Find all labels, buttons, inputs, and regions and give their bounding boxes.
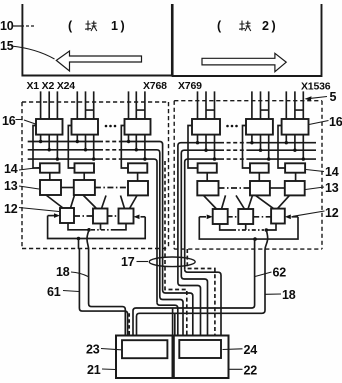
14 box R3 [285, 163, 305, 172]
dashed stair A [187, 249, 215, 336]
pointer 18 left [71, 272, 88, 277]
svg-text:12: 12 [325, 206, 339, 220]
block1 text [68, 19, 125, 33]
svg-text:): ) [272, 19, 276, 33]
svg-text:62: 62 [273, 266, 287, 280]
16 box R2 [246, 119, 273, 135]
12 box L3 [119, 209, 134, 224]
svg-text:18: 18 [282, 288, 296, 302]
13 box L3 [128, 181, 148, 195]
label 18 right [282, 288, 296, 302]
14 box L3 [128, 163, 147, 172]
label 23 [86, 343, 100, 357]
62 wire down [254, 239, 256, 249]
svg-text:1: 1 [111, 19, 118, 33]
label 12 right [325, 206, 339, 220]
label 21 [87, 363, 101, 377]
svg-text:13: 13 [325, 181, 339, 195]
staircase R3 [185, 269, 221, 335]
12R3 output [266, 224, 276, 231]
18r wire [137, 249, 266, 336]
label 15 [0, 39, 14, 53]
14 box R1 [198, 163, 217, 172]
input wires group R1 [198, 91, 215, 119]
dashed box left [22, 102, 169, 249]
dashed stair B [165, 161, 187, 336]
input wires group L1 [41, 91, 58, 119]
label 16 right [329, 115, 342, 129]
staircase L3 [163, 290, 193, 336]
13 box R2 [250, 181, 270, 195]
13 box R1 [197, 181, 218, 195]
pointer 22 [229, 368, 243, 370]
block2 text [217, 19, 276, 33]
feedback loop left [48, 216, 146, 239]
bus R3 [185, 159, 316, 269]
svg-text:X769: X769 [178, 80, 202, 92]
18r S-curve down [265, 230, 268, 249]
glyph kuai block2 [239, 21, 251, 32]
bus L2 [28, 150, 160, 297]
input wires group R2 [252, 91, 269, 119]
feedback loop right [199, 217, 298, 239]
label 17 [121, 255, 135, 269]
dot at 18r tap [265, 228, 269, 232]
staircase R2 [181, 276, 207, 336]
input wires group L2 [77, 91, 93, 119]
pointer 14 right [306, 170, 324, 172]
16 box output wires L1 [41, 135, 58, 160]
link 14-13 R1 [206, 173, 208, 181]
16 box output wires L2 [77, 135, 93, 160]
staircase R1 [178, 283, 201, 336]
arrow right (block2) [202, 53, 286, 71]
16 box R1 [192, 119, 220, 135]
diagonals 13 to 12 right [204, 195, 290, 209]
svg-text:21: 21 [87, 363, 101, 377]
arrow into 12R1 [199, 216, 206, 218]
svg-text:23: 23 [86, 343, 100, 357]
box 21 [116, 336, 173, 379]
label 13 left [4, 179, 18, 193]
dot 18l tap [87, 228, 91, 232]
16 box L2 [72, 119, 99, 135]
16 box L1 [36, 119, 63, 135]
svg-text:14: 14 [4, 162, 18, 176]
svg-text:16: 16 [2, 114, 16, 128]
svg-text:17: 17 [121, 255, 135, 269]
18l wire [89, 249, 126, 336]
label 14 left [4, 162, 18, 176]
12L3 output [112, 224, 126, 230]
pointer 23 [101, 349, 121, 350]
enable link 16R2 to 14R2 [243, 126, 251, 169]
16 box L3 [125, 119, 151, 135]
enable link 16R3 to 14R3 [278, 126, 285, 169]
svg-text:12: 12 [4, 202, 18, 216]
12 box R1 [213, 209, 228, 224]
dots between R1,R2 [226, 125, 238, 128]
label 24 [244, 343, 258, 357]
dash link 12 outputs left [91, 229, 112, 231]
12 box R3 [271, 209, 285, 224]
svg-text:13: 13 [4, 179, 18, 193]
label 13 right [325, 181, 339, 195]
arrow into 12L3 [141, 216, 146, 218]
pointer 61 [63, 291, 79, 292]
box 22 [174, 336, 229, 379]
label 5 [330, 90, 337, 104]
link 14-13 R3 [295, 173, 297, 181]
svg-text:24: 24 [244, 343, 258, 357]
14 box R2 [250, 163, 269, 172]
arrow left (block1) [56, 51, 141, 71]
enable link 16L2 to 14L2 [68, 126, 74, 169]
dash link 12 outputs right [232, 229, 264, 231]
enable link 16R1 to 14R1 [188, 126, 198, 169]
pointer 14 left [19, 168, 39, 171]
61 wire down [78, 239, 80, 250]
14 box L1 [40, 163, 60, 172]
12L1 output [68, 223, 89, 230]
svg-text:X1 X2 X24: X1 X2 X24 [27, 80, 76, 92]
pointer 13 right [306, 187, 325, 190]
svg-text:61: 61 [47, 285, 61, 299]
12R2 output [245, 224, 247, 230]
12R1 output [220, 224, 232, 230]
dashed box right [174, 101, 322, 249]
label 18 left [56, 265, 70, 279]
svg-text:18: 18 [56, 265, 70, 279]
12L2 output [100, 224, 102, 230]
16 box output wires L3 [129, 135, 145, 160]
glyph kuai block1 [85, 21, 97, 32]
junction dots right buses [196, 141, 305, 161]
box 24 [179, 340, 221, 358]
pointer 10 [12, 25, 34, 27]
13 box R3 [285, 181, 305, 195]
61 wire [79, 249, 127, 336]
arrow into 12L1 [48, 215, 54, 217]
dashed drop into box21 [128, 313, 130, 335]
staircase L1 (bus3 drop) [157, 302, 178, 335]
label 16 left [2, 114, 16, 128]
16 box output wires R3 [286, 135, 303, 160]
svg-text:14: 14 [325, 165, 339, 179]
13 box L1 [40, 180, 61, 195]
pointer 21 [102, 368, 116, 371]
dot at 62 tap on feedback [253, 237, 257, 241]
input wires group L3 [129, 91, 145, 119]
svg-text:X768: X768 [143, 80, 167, 92]
X labels [27, 80, 331, 93]
pointer 62 [255, 272, 272, 277]
12 box R2 [238, 209, 253, 224]
bus R2 [181, 150, 316, 276]
label 61 [47, 285, 61, 299]
pointer 16 left [16, 120, 36, 125]
svg-text:16: 16 [329, 115, 342, 129]
enable link 16L1 to 14L1 [33, 126, 40, 169]
16 box output wires R1 [198, 135, 215, 160]
label 14 right [325, 165, 339, 179]
link 14-13 L1 [49, 173, 51, 180]
12 box L1 [60, 208, 74, 223]
17 ellipse [149, 257, 195, 267]
pointer 12 left [19, 208, 59, 212]
label 22 [244, 364, 258, 378]
link 14-13 L2 [83, 173, 85, 180]
pointer 13 left [19, 186, 39, 189]
12 row connector R1-R2 dashdot [228, 216, 239, 218]
input wires group R3 [286, 91, 303, 119]
center pair wires [173, 308, 175, 336]
bus R1 [178, 143, 316, 283]
block 1 box [22, 4, 172, 76]
12 row connector L1-L2 dashdot [74, 215, 93, 217]
14 box L2 [75, 163, 95, 172]
svg-text:): ) [121, 19, 125, 33]
link 14-13 R2 [258, 173, 260, 181]
13 row connector R2-R3 [270, 187, 285, 189]
box 23 [122, 340, 167, 358]
bus L1 [28, 142, 163, 291]
pointer 17 [137, 261, 149, 263]
13 row connector L2-L3 dashdot [95, 187, 128, 189]
arrow into 12R3 [292, 216, 299, 218]
pointer 24 [223, 348, 243, 351]
label 10 [0, 19, 14, 33]
pointer 16 right [309, 121, 329, 125]
pointer 18 right [265, 293, 281, 295]
link 14-13 L3 [137, 173, 139, 181]
13 row connector L1-L2 [61, 187, 74, 189]
staircase L2 [160, 297, 183, 336]
pointer 12 right [293, 211, 325, 216]
dots between L2,L3 [105, 125, 117, 128]
label 62 [273, 266, 287, 280]
diagonals 13 to 12 left [46, 195, 137, 209]
18l S-curve down [87, 230, 89, 249]
12 row connector L2-L3 dashdot [108, 215, 119, 217]
svg-text:2: 2 [262, 19, 269, 33]
svg-text:5: 5 [330, 90, 337, 104]
13 row connector R1-R2 dashdot [219, 187, 251, 189]
pointer 15 curve [11, 46, 55, 59]
12 row connector R2-R3 dashdot [253, 216, 271, 218]
16 box output wires R2 [252, 135, 269, 160]
dot at 61 tap on feedback [77, 237, 81, 241]
svg-text:22: 22 [244, 364, 258, 378]
label 12 left [4, 202, 18, 216]
svg-text:10: 10 [0, 19, 14, 33]
12 box L2 [93, 209, 108, 224]
junction dots left buses [39, 140, 147, 161]
block 2 box [173, 4, 322, 76]
bus L3 [28, 159, 157, 302]
pointer 5 with arrowhead [310, 97, 327, 99]
13 box L2 [74, 180, 95, 195]
svg-text:X1536: X1536 [301, 81, 331, 93]
enable link 16L3 to 14L3 [121, 126, 128, 169]
62 wire [133, 249, 255, 336]
16 box R3 [282, 119, 309, 135]
